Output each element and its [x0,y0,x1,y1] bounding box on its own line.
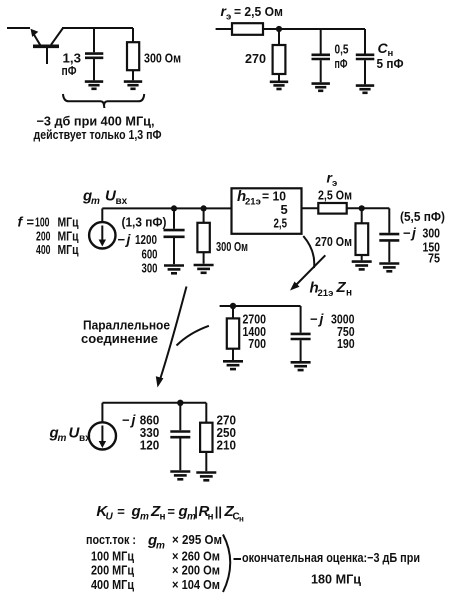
svg-text:2,5 Ом: 2,5 Ом [318,188,352,203]
label g_m U_vx bottom [49,425,92,445]
svg-text:U: U [106,512,114,523]
resistor 270 top-right [273,29,286,81]
ground [291,362,311,370]
svg-text:=: = [117,504,125,519]
svg-text:m: m [91,196,100,207]
junction dot D [230,303,236,309]
label g_m U_vx [82,188,128,208]
svg-text:пФ: пФ [335,56,348,71]
resistor R 300 Om top-left [127,28,139,80]
wire collector top [62,27,133,29]
svg-text:= 2,5 Ом: = 2,5 Ом [234,4,283,19]
svg-text:э: э [226,12,231,23]
svg-text:Z: Z [336,279,347,296]
main wire middle [102,207,231,209]
svg-text:вх: вх [116,196,128,207]
svg-text:пост.ток :: пост.ток : [86,533,136,547]
capacitor -j3000 [291,306,311,361]
resistor 2700/1400/700 [227,306,239,360]
resistor r_e (horizontal box) [232,23,263,35]
svg-text:21э: 21э [245,197,261,208]
current source g_m U_vx [89,208,115,248]
ground [85,82,103,89]
ground [164,266,184,274]
svg-text:=: = [27,215,35,230]
ground [124,82,142,89]
label 270 Om middle [315,234,352,249]
long arrow parallel merge [156,287,209,388]
svg-text:0,5: 0,5 [335,42,349,57]
ground [352,262,372,270]
svg-text:действует только 1,3 пФ: действует только 1,3 пФ [34,127,162,142]
svg-text:2,5: 2,5 [274,216,288,231]
label (1,3 pF) [122,215,167,230]
label r_e = 2,5 Om top-right [221,3,284,23]
wire r_e to cap [347,207,390,209]
capacitor -j860 bottom [170,403,190,470]
resistor 270 Om middle [356,208,369,260]
label 300 Om middle [216,239,248,254]
brace under top-left circuit [63,94,144,108]
table row 200 MHz [91,563,220,578]
svg-text:210: 210 [217,438,237,453]
svg-text:m: m [156,541,165,552]
junction dot B [201,205,207,211]
ground [379,264,399,272]
svg-text:100 МГц: 100 МГц [91,549,134,564]
ground [356,86,374,93]
svg-text:−: − [403,226,411,241]
junction dot C [359,205,365,211]
wire block to r_e [302,207,319,209]
arrow to h21e Z_n [290,236,325,291]
svg-text:−: − [118,232,126,247]
svg-text:МГц: МГц [58,242,79,257]
svg-text:m: m [140,512,149,523]
label r_e 2,5 Om [318,170,352,203]
svg-text:400: 400 [36,242,51,257]
svg-text:300 Ом: 300 Ом [216,239,248,254]
svg-text:соединение: соединение [81,331,158,346]
capacitor 0,5 pF [312,29,331,82]
svg-text:н: н [239,515,244,524]
capacitor C_n 5 pF [356,29,375,84]
svg-text:|: | [194,504,198,519]
ground [196,473,216,481]
svg-text:× 295 Ом: × 295 Ом [172,532,222,547]
ground [270,82,288,89]
junction dot E [177,400,183,406]
svg-text:× 260 Ом: × 260 Ом [172,549,220,564]
svg-text:5 пФ: 5 пФ [377,56,404,71]
label 300 Om [144,51,181,66]
resistor r_e horizontal middle [318,203,346,214]
label h21e Z_n [310,279,353,299]
svg-text:||: || [215,504,222,519]
svg-text:н: н [208,512,214,523]
svg-text:пФ: пФ [62,63,77,78]
label parallel connection [81,318,170,347]
label 270 [245,51,266,66]
svg-text:× 200 Ом: × 200 Ом [172,563,220,578]
resistor 300 Om middle [197,208,209,263]
ground [170,472,190,480]
svg-text:300: 300 [423,226,441,241]
svg-text:700: 700 [248,336,266,351]
table row 100 MHz [91,549,220,564]
brace right of table [223,535,241,593]
current source bottom [89,403,116,450]
svg-text:окончательная оценка:−3 дБ при: окончательная оценка:−3 дБ при [242,550,420,565]
svg-text:190: 190 [337,336,355,351]
svg-text:МГц: МГц [58,215,79,230]
svg-text:100: 100 [35,215,50,230]
junction dot [276,26,282,32]
svg-text:× 104 Ом: × 104 Ом [172,577,220,592]
svg-text:400 МГц: 400 МГц [91,577,134,592]
svg-text:300 Ом: 300 Ом [144,51,181,66]
table row DC [86,532,222,552]
svg-text:270 Ом: 270 Ом [315,234,352,249]
svg-text:−: − [122,413,130,428]
svg-text:н: н [346,288,352,299]
svg-text:m: m [58,433,67,444]
svg-text:=: = [167,504,175,519]
wire top-right [216,28,365,30]
label 2700/1400/700 [243,312,267,352]
svg-text:120: 120 [140,438,160,453]
label C_n 5 pF [377,40,404,71]
capacitor C 1,3 pF top-left [85,28,103,80]
label 0,5 pF [335,42,349,72]
capacitor (1,3 pF) middle [164,208,185,264]
resistor 270/250/210 bottom [200,403,212,471]
label -j 1200/600/300 [118,231,158,276]
label -j 860/330/120 [122,412,159,453]
svg-text:н: н [160,512,166,523]
ground [223,361,243,369]
label 1,3 pF [62,51,82,79]
label (5,5 pF) -j 300/150/75 [400,209,445,266]
label 270/250/210 [217,413,237,453]
wire sub-circuit top [220,305,301,307]
junction dot A [171,205,177,211]
svg-text:21э: 21э [318,288,334,299]
svg-text:600: 600 [142,247,158,262]
svg-text:300: 300 [142,261,158,276]
ground [194,265,214,273]
transistor Q1 [7,28,63,64]
label -j 3000/750/190 [310,311,355,352]
note text -3 dB [34,114,162,143]
formula K_U [96,503,244,524]
svg-text:180 МГц: 180 МГц [311,572,361,587]
svg-text:200 МГц: 200 МГц [91,563,134,578]
svg-text:1200: 1200 [135,232,157,247]
svg-text:75: 75 [428,251,440,266]
wire bottom circuit [102,402,206,404]
svg-text:−: − [310,312,318,327]
label f = 100/200/400 MHz [18,214,79,258]
block h21e [232,188,302,234]
table row 400 MHz [91,577,220,592]
ground [312,84,330,91]
final note [242,550,420,587]
capacitor (5,5 pF) [379,208,399,262]
svg-text:(1,3 пФ): (1,3 пФ) [122,215,167,230]
svg-text:270: 270 [245,51,266,66]
svg-text:(5,5 пФ): (5,5 пФ) [400,209,445,224]
